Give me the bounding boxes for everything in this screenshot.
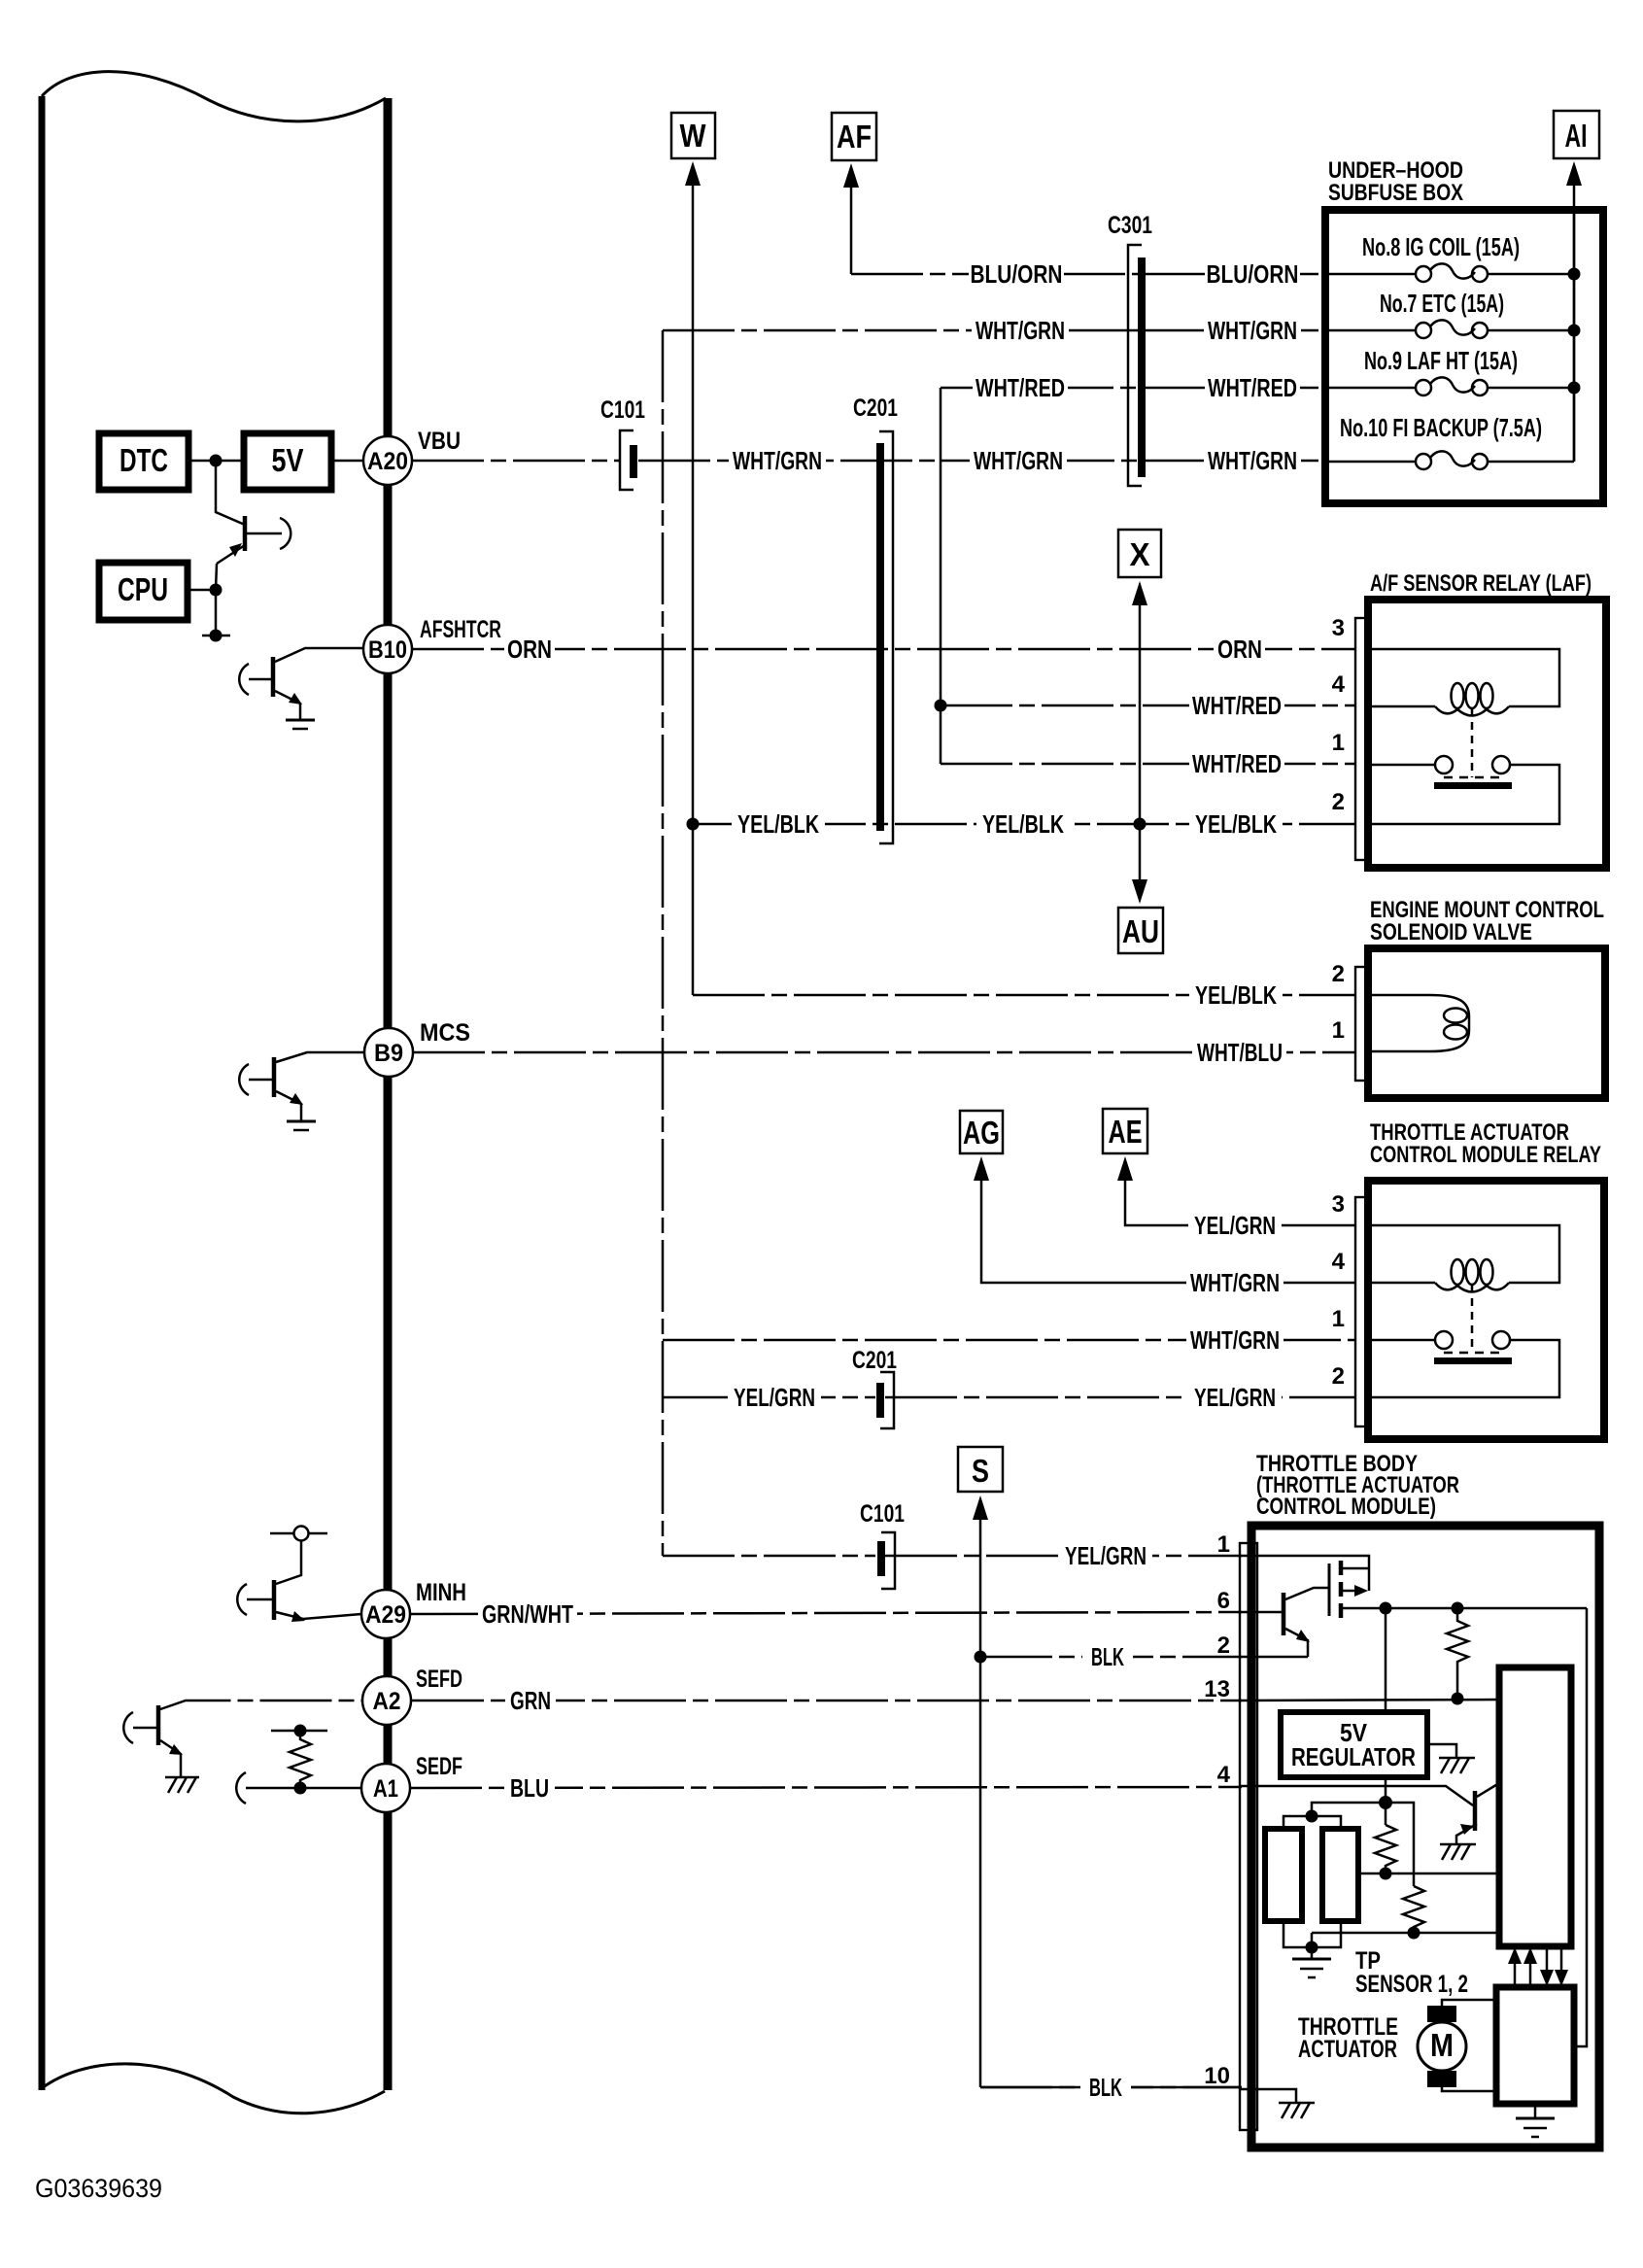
wire label WHT/GRN <box>1204 446 1301 475</box>
arrow to S <box>973 1495 988 1520</box>
connector pin A1 <box>361 1764 410 1812</box>
transistor Q3 emitter with arrow <box>276 1091 301 1121</box>
arrow to AE <box>1117 1156 1133 1181</box>
node dot pin13 <box>1452 1693 1464 1705</box>
svg-text:C301: C301 <box>1108 212 1152 239</box>
svg-text:BLK: BLK <box>1089 2073 1122 2102</box>
connector C301 <box>1108 212 1152 486</box>
wire rail to 5V regulator <box>1385 1608 1387 1712</box>
wire W vertical <box>692 183 695 995</box>
engine mount connector bracket <box>1355 967 1368 1081</box>
motor wires to actuator <box>1442 2000 1496 2006</box>
node dot TP sensor bottom <box>1306 1942 1318 1954</box>
svg-text:2: 2 <box>1332 1363 1345 1390</box>
node dot WHT/RED branch <box>935 700 947 712</box>
throttle actuator control module relay box <box>1368 1181 1604 1439</box>
wire label ORN <box>504 635 555 664</box>
wire label WHT/BLU <box>1193 1038 1286 1067</box>
wire row relay pin1 WHT/RED <box>941 763 1356 766</box>
wire vertical x968 WHT/RED <box>940 388 942 764</box>
THROTTLE-BODY-SECTION <box>1204 1451 1599 2148</box>
transistor Q4 base lead <box>247 1598 272 1601</box>
A/F relay coil <box>1368 705 1435 708</box>
svg-text:4: 4 <box>1217 1762 1231 1788</box>
A/F sensor relay box <box>1368 600 1606 868</box>
arc lead at A1 row <box>236 1772 246 1804</box>
svg-text:GRN/WHT: GRN/WHT <box>482 1599 573 1629</box>
solenoid coil <box>1368 995 1469 1051</box>
wire AI vertical into fuse box bus <box>1573 183 1576 462</box>
wire label YEL/BLK <box>732 809 825 839</box>
under-hood subfuse box <box>1325 210 1603 503</box>
transistor Q1 emitter with arrow <box>217 545 245 564</box>
svg-text:SEDF: SEDF <box>416 1753 462 1780</box>
ECM top torn edge <box>42 72 386 121</box>
wire W line corner to engine mount pin 2 <box>693 994 1356 997</box>
wire S vertical <box>979 1517 982 2087</box>
driver to actuator arrows up 1 <box>1514 1963 1517 1987</box>
wire label WHT/RED <box>973 373 1068 402</box>
wire label YEL/BLK <box>1189 809 1283 839</box>
svg-text:WHT/GRN: WHT/GRN <box>974 446 1063 475</box>
resistor R1 pullup <box>1447 1608 1468 1699</box>
driver to actuator arrows down 1 <box>1546 1946 1549 1971</box>
TP sensor top stubs <box>1284 1816 1341 1829</box>
transistor Q5 base lead <box>133 1727 156 1730</box>
arrow to AI <box>1566 161 1582 186</box>
MOSFET M1 drain tap <box>1341 1567 1369 1570</box>
wire label WHT/GRN <box>1186 1325 1284 1355</box>
5V REGULATOR box <box>1281 1712 1427 1777</box>
wire row B10 ORN to relay pin 3 <box>412 648 1356 651</box>
TAC relay contact fixed 1 <box>1368 1339 1435 1342</box>
svg-text:2: 2 <box>1332 789 1345 815</box>
node dot TP sensor top <box>1306 1810 1318 1823</box>
svg-text:A29: A29 <box>365 1601 406 1629</box>
svg-text:AFSHTCR: AFSHTCR <box>420 616 501 643</box>
wire row A20 VBU WHT/GRN <box>412 460 619 463</box>
svg-text:BLU: BLU <box>510 1773 549 1803</box>
ECM bottom torn edge <box>42 2064 385 2113</box>
wire label YEL/GRN <box>728 1383 821 1412</box>
svg-text:CONTROL MODULE RELAY: CONTROL MODULE RELAY <box>1370 1142 1601 1168</box>
node dot rail 1 <box>1380 1602 1392 1615</box>
wire row relay2 pin2 YEL/GRN branch <box>663 1396 875 1399</box>
wire label BLK <box>1080 2073 1131 2102</box>
svg-text:AU: AU <box>1122 913 1159 949</box>
driver IC block <box>1499 1667 1571 1946</box>
node dot R2 bottom <box>1380 1868 1392 1880</box>
wire AF vertical <box>850 185 853 274</box>
wire label WHT/RED <box>1205 373 1300 402</box>
throttle actuator block <box>1496 1987 1574 2104</box>
svg-text:5V: 5V <box>272 442 304 478</box>
resistor R-ecm zigzag <box>290 1731 311 1788</box>
throttle body connector bracket <box>1240 1543 1257 2130</box>
transistor Q4 base bar <box>272 1580 277 1620</box>
arrow to X <box>1132 581 1147 605</box>
wire label ORN <box>1215 635 1265 664</box>
svg-text:YEL/GRN: YEL/GRN <box>734 1383 815 1412</box>
connector C101 second <box>860 1500 905 1589</box>
svg-text:WHT/GRN: WHT/GRN <box>976 316 1065 345</box>
svg-text:ORN: ORN <box>1217 635 1262 664</box>
svg-text:BLU/ORN: BLU/ORN <box>971 259 1063 289</box>
wire label YEL/GRN <box>1188 1211 1282 1240</box>
node dot CPU <box>210 584 222 597</box>
svg-text:1: 1 <box>1217 1531 1230 1558</box>
A/F relay armature dashed link <box>1471 708 1474 777</box>
svg-text:C101: C101 <box>600 396 645 424</box>
wire row YEL/BLK to relay pin 2 <box>693 823 1356 826</box>
throttle body box <box>1251 1526 1599 2148</box>
svg-text:B10: B10 <box>368 636 407 664</box>
svg-text:MCS: MCS <box>420 1019 470 1047</box>
engine mount solenoid valve box <box>1368 948 1605 1098</box>
svg-text:No.10 FI BACKUP (7.5A): No.10 FI BACKUP (7.5A) <box>1340 413 1542 442</box>
wire row A2 SEFD GRN to throttle pin 13 <box>412 1700 1242 1702</box>
wire label WHT/RED <box>1189 749 1284 778</box>
transistor Q4 emitter with arrow to A29 <box>276 1612 361 1619</box>
node dot R3 bottom <box>1408 1927 1421 1940</box>
wire row fuse3 WHT/RED with corner down <box>941 387 1138 390</box>
transistor Q2 base lead <box>249 678 271 681</box>
DTC box <box>99 433 188 490</box>
transistor Q2 base bar <box>271 657 276 697</box>
wire arc to A1 <box>246 1787 362 1790</box>
svg-text:C201: C201 <box>852 1347 897 1374</box>
wire rail right side down to actuator <box>1574 1608 1587 2046</box>
svg-text:C101: C101 <box>860 1500 905 1528</box>
svg-text:A20: A20 <box>367 448 408 475</box>
svg-text:WHT/GRN: WHT/GRN <box>1208 446 1297 475</box>
svg-text:MINH: MINH <box>416 1579 466 1606</box>
ground hatch pin10 <box>1279 2102 1315 2105</box>
transistor Q1 base lead and arc <box>245 533 282 535</box>
wire row throttle pin1 YEL/GRN <box>663 1555 875 1558</box>
svg-text:10: 10 <box>1204 2063 1230 2089</box>
regulator ground hatch <box>1427 1744 1456 1758</box>
node AU box <box>1118 908 1163 953</box>
svg-text:13: 13 <box>1204 1676 1230 1702</box>
node S box <box>958 1447 1003 1492</box>
svg-text:G03639639: G03639639 <box>35 2174 162 2203</box>
transistor Q6 emitter with arrow to pin 2 <box>1285 1629 1308 1657</box>
node W box <box>671 113 715 158</box>
wire label WHT/GRN <box>972 316 1069 345</box>
svg-text:CONTROL MODULE): CONTROL MODULE) <box>1256 1494 1436 1520</box>
wire row fuse2 WHT/GRN with corner down <box>663 329 1138 332</box>
driver to actuator arrows down 2 <box>1560 1946 1563 1971</box>
wire label YEL/BLK <box>1189 980 1283 1010</box>
svg-text:2: 2 <box>1217 1632 1230 1659</box>
ground at Q3 <box>287 1120 316 1123</box>
node AG box <box>960 1111 1003 1153</box>
svg-text:No.7 ETC (15A): No.7 ETC (15A) <box>1380 289 1504 318</box>
wire S corner to pin 10 <box>980 2086 1241 2089</box>
svg-text:YEL/GRN: YEL/GRN <box>1065 1541 1147 1570</box>
svg-text:YEL/GRN: YEL/GRN <box>1194 1211 1276 1240</box>
A/F relay connector bracket <box>1355 618 1368 860</box>
wire CPU to node <box>188 589 216 592</box>
svg-text:BLU/ORN: BLU/ORN <box>1207 259 1299 289</box>
node dot bus fuse1 <box>1568 268 1581 281</box>
connector pin B9 <box>364 1028 413 1077</box>
driver to actuator arrows up 2 <box>1529 1963 1532 1987</box>
chassis ground at Q5 <box>165 1776 199 1779</box>
TAC relay contact fixed 2 <box>1492 1331 1510 1349</box>
transistor Q5 emitter with arrow <box>160 1740 181 1777</box>
svg-text:A/F SENSOR RELAY (LAF): A/F SENSOR RELAY (LAF) <box>1370 570 1592 597</box>
wire X to AU vertical <box>1139 602 1142 886</box>
wire AG vertical, corner to relay pin 4 <box>981 1178 1356 1283</box>
transistor Q1 (PNP) base bar <box>243 516 248 551</box>
wire label BLK <box>1082 1642 1133 1671</box>
arrow to AF <box>843 163 859 188</box>
transistor Q7 base bar <box>1473 1791 1478 1831</box>
svg-text:VBU: VBU <box>418 428 461 455</box>
wire CPU node down <box>215 590 218 636</box>
node AE box <box>1103 1109 1147 1153</box>
wire 5V to A20 <box>331 460 365 463</box>
A/F relay contact fixed 1 <box>1368 764 1435 767</box>
node AF box <box>832 113 876 160</box>
resistor R-ecm stub <box>271 1730 327 1733</box>
TAC relay connector bracket <box>1355 1197 1368 1426</box>
wire pin13 GRN <box>1240 1700 1499 1701</box>
wire row fuse1 BLU/ORN <box>851 273 1138 276</box>
motor M <box>1418 2022 1466 2071</box>
connector C201 second <box>852 1347 897 1428</box>
A/F relay wire pin3 to coil right <box>1368 649 1559 706</box>
svg-text:No.9 LAF HT (15A): No.9 LAF HT (15A) <box>1364 346 1518 375</box>
wire row A1 SEDF BLU to throttle pin 4 <box>410 1787 1242 1788</box>
svg-text:AF: AF <box>837 119 872 155</box>
transistor Q6 base bar <box>1282 1593 1286 1635</box>
svg-text:4: 4 <box>1332 1249 1346 1275</box>
node dot resistor top <box>294 1725 307 1737</box>
connector pin A20 <box>363 436 412 485</box>
transistor Q7 emitter with arrow <box>1456 1824 1477 1844</box>
resistor R2 <box>1375 1825 1396 1873</box>
svg-text:X: X <box>1130 536 1150 572</box>
wire label BLU <box>504 1773 555 1803</box>
svg-text:ACTUATOR: ACTUATOR <box>1298 2036 1397 2063</box>
MOSFET M1 channel bar (dashed) <box>1339 1561 1344 1620</box>
wire label BLU/ORN <box>1205 259 1300 289</box>
transistor Q3 base lead <box>249 1079 272 1082</box>
fuse bus vertical <box>1573 210 1576 462</box>
wire row B9 MCS WHT/BLU to engine mount pin 1 <box>413 1051 1356 1054</box>
svg-text:WHT/GRN: WHT/GRN <box>1190 1325 1280 1355</box>
5V box <box>244 433 331 490</box>
TAC relay contact bar <box>1434 1357 1512 1364</box>
svg-text:A2: A2 <box>373 1688 401 1715</box>
TAC relay armature dashed link <box>1471 1285 1474 1353</box>
svg-text:C201: C201 <box>853 395 898 422</box>
wire label YEL/BLK <box>976 809 1070 839</box>
connector pin A29 <box>361 1590 410 1638</box>
svg-text:AG: AG <box>963 1115 1000 1151</box>
connector pin A2 <box>362 1676 411 1725</box>
node dot bus fuse3 <box>1568 382 1581 395</box>
wire TP sensor 2 wiper to driver <box>1358 1873 1499 1875</box>
svg-text:ORN: ORN <box>507 635 552 664</box>
svg-text:M: M <box>1430 2027 1454 2063</box>
ECM left border <box>39 96 46 2090</box>
arrow to W <box>685 161 701 186</box>
svg-text:CPU: CPU <box>118 571 168 607</box>
svg-text:WHT/RED: WHT/RED <box>976 373 1065 402</box>
wire label YEL/GRN <box>1188 1383 1282 1412</box>
TP sensor 1 element <box>1265 1829 1302 1921</box>
TAC relay coil <box>1368 1282 1435 1285</box>
arrow to AG <box>974 1156 989 1181</box>
node dot resistor bottom <box>294 1782 307 1795</box>
transistor Q5 at A2: arc <box>123 1712 133 1743</box>
connector C101 <box>600 396 645 490</box>
wire node down to transistor Q1 <box>216 461 245 525</box>
svg-text:SOLENOID VALVE: SOLENOID VALVE <box>1370 919 1532 945</box>
stub at lower node <box>202 635 230 637</box>
svg-text:WHT/BLU: WHT/BLU <box>1197 1038 1283 1067</box>
svg-text:YEL/BLK: YEL/BLK <box>1195 809 1277 839</box>
svg-text:1: 1 <box>1332 1306 1345 1332</box>
wire label GRN <box>505 1686 556 1715</box>
svg-text:WHT/RED: WHT/RED <box>1192 691 1282 720</box>
svg-text:W: W <box>680 118 707 154</box>
wire label WHT/GRN <box>1204 316 1301 345</box>
MID-SECTION <box>410 111 1599 2102</box>
svg-text:AE: AE <box>1109 1114 1143 1150</box>
wire regulator output node <box>1385 1777 1387 1825</box>
node dot on X-AU line (YEL/BLK) <box>1134 818 1147 831</box>
svg-text:WHT/GRN: WHT/GRN <box>1208 316 1297 345</box>
wire row BLK to throttle pin 2 <box>980 1656 1242 1659</box>
transistor Q3 base bar <box>272 1057 277 1097</box>
wire row relay pin4 WHT/RED <box>941 704 1356 707</box>
transistor Q7 collector <box>1477 1783 1499 1797</box>
wire node to TP sensors top <box>1312 1803 1386 1816</box>
svg-text:SEFD: SEFD <box>416 1666 462 1693</box>
node X box <box>1118 530 1161 577</box>
svg-text:YEL/BLK: YEL/BLK <box>982 809 1064 839</box>
node dot DTC/5V <box>210 455 222 467</box>
transistor Q6 collector to MOSFET gate <box>1285 1588 1329 1599</box>
node AI box <box>1554 111 1599 158</box>
wire row relay2 pin1 WHT/GRN branch <box>663 1339 1356 1342</box>
wire pin6 to Q6 base <box>1240 1611 1282 1614</box>
CPU box <box>99 563 188 620</box>
svg-text:S: S <box>972 1453 989 1489</box>
wire row BLK to throttle pin 10 <box>980 2086 1242 2089</box>
wire AE vertical, corner to relay pin 3 <box>1125 1178 1356 1225</box>
node dot regulator output <box>1379 1796 1392 1809</box>
wire label BLU/ORN <box>969 259 1064 289</box>
svg-text:DTC: DTC <box>120 442 168 478</box>
svg-text:AI: AI <box>1565 118 1588 154</box>
wire label WHT/GRN <box>970 446 1067 475</box>
svg-text:3: 3 <box>1332 615 1345 641</box>
transistor Q4 collector lead <box>276 1541 301 1584</box>
resistor R3 <box>1403 1886 1424 1933</box>
svg-text:SENSOR 1, 2: SENSOR 1, 2 <box>1355 1971 1468 1998</box>
wire label GRN/WHT <box>478 1599 577 1629</box>
TP sensor bottoms joined <box>1284 1921 1341 1947</box>
svg-text:WHT/GRN: WHT/GRN <box>1190 1268 1280 1297</box>
transistor Q2 at B10: arc <box>239 664 249 695</box>
MOSFET M1 source tap to rail <box>1341 1607 1587 1610</box>
svg-text:6: 6 <box>1217 1588 1230 1614</box>
transistor Q5 collector to A2 <box>160 1701 362 1709</box>
svg-text:A1: A1 <box>373 1775 398 1803</box>
wire pin2 BLK <box>1240 1656 1308 1659</box>
node dot lower <box>210 630 222 642</box>
transistor Q4 arc <box>237 1584 247 1615</box>
svg-text:4: 4 <box>1332 671 1346 698</box>
svg-text:No.8 IG COIL (15A): No.8 IG COIL (15A) <box>1362 232 1520 261</box>
TP sensor 2 element <box>1322 1829 1358 1921</box>
svg-text:YEL/GRN: YEL/GRN <box>1194 1383 1276 1412</box>
RIGHT-SECTION <box>1325 157 1606 1439</box>
transistor Q5 base bar <box>156 1705 161 1745</box>
node dot bus fuse2 <box>1568 325 1581 337</box>
transistor Q2 emitter with arrow <box>275 691 300 720</box>
svg-text:REGULATOR: REGULATOR <box>1291 1742 1416 1771</box>
wire label WHT/GRN <box>729 446 826 475</box>
A/F relay contact bar <box>1434 782 1512 789</box>
wire DTC to 5V <box>188 460 244 463</box>
wire label YEL/GRN <box>1059 1541 1152 1570</box>
TAC relay wire pin3 to coil right <box>1368 1225 1559 1283</box>
svg-text:WHT/GRN: WHT/GRN <box>733 446 822 475</box>
wire pin4 BLU to Q7 base <box>1240 1786 1473 1805</box>
MOSFET M1 body arrow <box>1341 1590 1356 1593</box>
svg-text:SUBFUSE BOX: SUBFUSE BOX <box>1328 180 1463 206</box>
transistor Q2 collector <box>275 648 364 662</box>
svg-text:YEL/BLK: YEL/BLK <box>737 809 819 839</box>
wire label WHT/GRN <box>1186 1268 1284 1297</box>
wire sensor bottom to R3 line <box>1311 1933 1314 1959</box>
svg-text:WHT/RED: WHT/RED <box>1208 373 1297 402</box>
svg-text:GRN: GRN <box>510 1686 551 1715</box>
transistor Q3 collector <box>276 1052 365 1062</box>
svg-text:2: 2 <box>1332 961 1345 987</box>
wire vertical x682 fuse2 harness <box>662 330 665 1556</box>
svg-text:YEL/BLK: YEL/BLK <box>1195 980 1277 1010</box>
wire R3 bottom to driver <box>1312 1932 1499 1935</box>
ground hatch Q7 <box>1440 1843 1476 1846</box>
node dot on W line (YEL/BLK) <box>687 818 700 831</box>
node dot on S line (BLK pin2) <box>975 1651 987 1664</box>
ECM right border (main bus) <box>384 98 393 2090</box>
svg-text:BLK: BLK <box>1091 1642 1124 1671</box>
transistor Q3 at B9: arc <box>239 1064 249 1095</box>
arrow to AU <box>1132 879 1147 904</box>
ground at Q2 <box>286 719 315 722</box>
wire label WHT/RED <box>1189 691 1284 720</box>
wire row A29 MINH GRN/WHT to throttle pin 6 <box>410 1612 1242 1614</box>
actuator ground <box>1534 2104 1537 2118</box>
svg-text:WHT/RED: WHT/RED <box>1192 749 1282 778</box>
ground TP sensors <box>1292 1958 1331 1961</box>
MOSFET M1 gate bar <box>1328 1564 1331 1616</box>
wire node to R3 <box>1386 1803 1414 1886</box>
ECM-SECTION <box>42 72 501 2113</box>
connector C201 <box>853 395 898 843</box>
svg-text:1: 1 <box>1332 1017 1345 1044</box>
connector pin B10 <box>363 625 412 673</box>
